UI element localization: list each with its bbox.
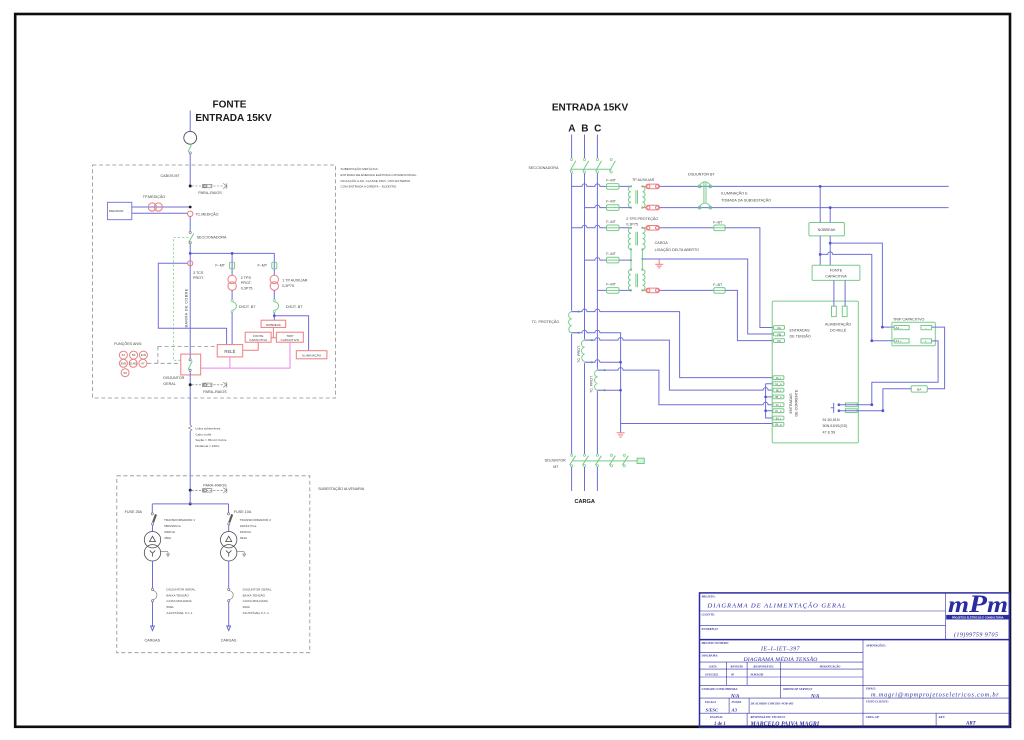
fonte capacitiva box direita — [812, 265, 860, 280]
rele multifuncao box — [772, 301, 858, 443]
ground TC — [617, 433, 625, 437]
wire ramal2-nobreak — [829, 208, 831, 223]
wire derivacao trafos — [152, 490, 228, 512]
svg-text:59: 59 — [123, 371, 127, 375]
wire saida — [189, 371, 191, 425]
wire saida menos trip-BA — [927, 327, 944, 389]
wire nobreak-fonte capacitiva 2 — [829, 236, 831, 265]
svg-text:TP AUXILIAR: TP AUXILIAR — [632, 178, 655, 182]
svg-text:2 TPS PROTEÇÃO: 2 TPS PROTEÇÃO — [626, 216, 658, 221]
svg-text:CAIXA MOLDADA: CAIXA MOLDADA — [243, 599, 269, 603]
svg-text:–: – — [925, 326, 927, 330]
wire cargas A B C — [571, 467, 573, 491]
svg-text:3 TCS: 3 TCS — [193, 271, 204, 275]
svg-text:ENTRADAS: ENTRADAS — [790, 329, 811, 333]
wire saida mais trip-contato — [872, 341, 938, 405]
wire IA_o to bus terra — [572, 330, 621, 433]
svg-text:CARGAS: CARGAS — [221, 639, 237, 643]
wire ramal 5 to F-BT — [660, 289, 714, 291]
wire medidor-barra — [132, 206, 190, 208]
wire barra MT — [189, 244, 191, 359]
fusivel secundario 1 — [642, 184, 659, 189]
wire ramal 3 (A - TPs protecao) — [572, 225, 631, 228]
svg-text:TRANSFORMADOR 1: TRANSFORMADOR 1 — [164, 518, 195, 522]
svg-text:BAIXA TENSÃO: BAIXA TENSÃO — [166, 592, 189, 597]
wire ramal 5 (C - TPs protecao) — [597, 289, 631, 291]
wire ramal 3 to F-BT — [660, 227, 714, 229]
svg-text:DISJUNTOR BT: DISJUNTOR BT — [688, 172, 716, 176]
svg-text:AJUSTÁVEL 0,7–1: AJUSTÁVEL 0,7–1 — [166, 611, 192, 615]
svg-text:ILUMINAÇÃO E: ILUMINAÇÃO E — [721, 191, 748, 196]
svg-text:FUSE 10A: FUSE 10A — [234, 510, 252, 514]
svg-text:DE TENSÃO: DE TENSÃO — [790, 334, 811, 339]
chave da fonte — [188, 144, 192, 152]
wire IA_i — [572, 309, 773, 378]
svg-text:BAIXA TENSÃO: BAIXA TENSÃO — [243, 592, 266, 597]
wire t1 — [152, 561, 154, 588]
svg-text:ENDEREÇO:: ENDEREÇO: — [701, 627, 719, 631]
svg-text:BARRA DE COBRE: BARRA DE COBRE — [184, 288, 188, 327]
svg-text:150KVA: 150KVA — [240, 530, 252, 534]
svg-text:DISJUNTOR: DISJUNTOR — [163, 376, 184, 380]
fusivel secundario 5 — [642, 288, 659, 293]
fusivel secundario 3 — [642, 226, 659, 231]
terminal VA — [774, 326, 785, 330]
svg-text:51: 51 — [122, 353, 126, 357]
svg-text:DIAGRAMA DE ALIMENTAÇÃO GER: DIAGRAMA DE ALIMENTAÇÃO GERAL — [707, 601, 847, 609]
svg-text:GERAL: GERAL — [163, 382, 176, 386]
svg-text:mPm: mPm — [948, 591, 1008, 618]
wire fonte entrada — [189, 111, 191, 132]
svg-text:TRIP CAPACITIVO: TRIP CAPACITIVO — [893, 317, 925, 321]
svg-text:51NS: 51NS — [129, 361, 137, 365]
svg-text:50N: 50N — [121, 361, 127, 365]
svg-text:F–MT: F–MT — [258, 264, 268, 268]
svg-text:IN_i: IN_i — [776, 416, 782, 420]
svg-text:DISJT. BT: DISJT. BT — [286, 305, 303, 309]
svg-text:N/A: N/A — [730, 694, 740, 699]
svg-text:0,3P75: 0,3P75 — [241, 286, 253, 290]
transformador T2 — [221, 532, 237, 548]
title block frame — [700, 593, 1010, 727]
wire fase B — [584, 135, 586, 159]
wire IC_i — [597, 368, 773, 405]
terminal alimentacao rele 1 — [832, 306, 837, 316]
TP medicao circles — [148, 203, 156, 211]
para-raios PR1 — [192, 183, 227, 189]
cargas T1 arrow — [152, 602, 154, 627]
battery BA — [911, 386, 927, 392]
terminal IC_i — [773, 403, 784, 407]
transformador T1 — [144, 532, 160, 548]
svg-text:MARCELO PAIVA MAGRI: MARCELO PAIVA MAGRI — [750, 721, 820, 727]
barra de cobre loop wire — [158, 263, 226, 344]
wire BA-contato inferior — [883, 389, 911, 411]
svg-text:EMAIL:: EMAIL: — [865, 687, 876, 691]
terminal VC — [774, 339, 785, 343]
svg-text:0,3P75: 0,3P75 — [282, 284, 294, 288]
svg-text:SECCIONADORA: SECCIONADORA — [197, 236, 227, 240]
wire A2 trip capacitivo — [830, 243, 894, 327]
svg-text:DE CORRENTE: DE CORRENTE — [795, 389, 799, 416]
svg-text:RESPONSÁVEL: RESPONSÁVEL — [753, 664, 774, 668]
svg-text:300KVA: 300KVA — [164, 530, 176, 534]
svg-text:FUNÇÕES ANSI: FUNÇÕES ANSI — [114, 341, 141, 346]
svg-text:50: 50 — [132, 353, 136, 357]
svg-text:PARA–RAIOS: PARA–RAIOS — [203, 483, 227, 487]
wire to rele — [231, 313, 233, 345]
TP auxiliar windings — [628, 186, 645, 207]
wire IB_o — [585, 360, 621, 363]
disjuntor geral box — [181, 354, 201, 375]
svg-text:CAIXA MOLDADA: CAIXA MOLDADA — [166, 599, 192, 603]
wire fase A — [571, 135, 573, 159]
svg-text:1 de 1: 1 de 1 — [714, 722, 726, 727]
wire VA — [725, 228, 773, 328]
svg-text:ILUMINAÇÃO: ILUMINAÇÃO — [302, 352, 322, 357]
svg-text:VISTO CLIENTE:: VISTO CLIENTE: — [866, 700, 889, 704]
svg-text:DISJUNTOR: DISJUNTOR — [545, 458, 566, 462]
svg-text:DE ACORDO COM DIS–NOR–003: DE ACORDO COM DIS–NOR–003 — [750, 701, 794, 705]
wire IC_o — [597, 389, 620, 391]
svg-text:F–BT: F–BT — [713, 220, 723, 224]
svg-text:450A: 450A — [164, 536, 172, 540]
fonte capacitiva box — [245, 332, 271, 342]
TC protecao 3 TCS — [188, 261, 193, 266]
svg-text:IN_o: IN_o — [775, 423, 782, 427]
svg-text:DISJUNTOR GERAL: DISJUNTOR GERAL — [243, 588, 272, 592]
svg-text:m.magri@mpmprojetoseletricos.c: m.magri@mpmprojetoseletricos.com.br — [871, 692, 1000, 699]
svg-text:ART:: ART: — [938, 715, 945, 719]
svg-text:IA_o: IA_o — [775, 382, 782, 386]
svg-text:ENTRADAS: ENTRADAS — [789, 393, 793, 414]
terminal IB_o — [773, 395, 784, 399]
wire IN_o from terra bus — [621, 423, 773, 425]
seccionadora S1 — [189, 231, 191, 233]
svg-text:IC_i: IC_i — [776, 403, 782, 407]
terminal IB_i — [773, 388, 784, 392]
svg-text:PÁGINAS: PÁGINAS — [710, 715, 723, 719]
svg-text:MT: MT — [553, 465, 559, 469]
svg-text:PARA–RAIOS: PARA–RAIOS — [198, 191, 222, 195]
subestacao alvenaria enclosure — [117, 476, 310, 653]
wire ramal1-nobreak — [819, 186, 821, 222]
svg-text:SECCIONADORA: SECCIONADORA — [529, 166, 559, 170]
ANSI function circles — [119, 351, 147, 377]
disjuntor BT 2 — [273, 299, 275, 301]
relay bus entradas corrente — [766, 384, 773, 418]
svg-text:RELÉ: RELÉ — [224, 349, 235, 354]
svg-text:50N,51NS(GS): 50N,51NS(GS) — [823, 424, 848, 428]
svg-text:2 TPS: 2 TPS — [241, 276, 252, 280]
rele box — [217, 345, 243, 357]
svg-text:ART: ART — [965, 722, 977, 727]
svg-text:IC_o: IC_o — [775, 409, 782, 413]
svg-text:REVISÃO: REVISÃO — [731, 664, 744, 668]
subestacao metalica enclosure — [93, 165, 336, 398]
fonte supply circle — [184, 131, 197, 144]
svg-text:FONTE: FONTE — [830, 269, 843, 273]
TP protecao 2 TPS — [228, 275, 236, 283]
svg-text:CLIENTE:: CLIENTE: — [702, 612, 716, 616]
svg-text:TP.MEDIÇÃO: TP.MEDIÇÃO — [143, 194, 166, 199]
svg-text:S/ESC: S/ESC — [706, 707, 719, 712]
wire nobreak-fonte capacitiva 1 — [819, 236, 821, 265]
svg-text:NOBREAK: NOBREAK — [818, 228, 837, 232]
node junction trafos — [189, 502, 192, 505]
svg-text:FUSE 25A: FUSE 25A — [125, 510, 143, 514]
svg-text:VC: VC — [777, 339, 782, 343]
svg-text:PROJETO NÚMERO:: PROJETO NÚMERO: — [702, 641, 729, 645]
wire fase C — [596, 135, 598, 159]
disjuntor BT 1 — [231, 299, 233, 301]
wire entrada subestacao — [189, 154, 191, 186]
svg-text:Distância = 240m: Distância = 240m — [195, 444, 219, 448]
wire nobreak/iluminacao — [273, 313, 275, 321]
TPs protecao delta aberto windings — [628, 228, 645, 291]
svg-text:ESCALA: ESCALA — [704, 700, 716, 704]
svg-text:F–MT: F–MT — [606, 200, 616, 204]
svg-text:DIAGRAMA MÉDIA TENSÃO: DIAGRAMA MÉDIA TENSÃO — [742, 655, 817, 663]
svg-text:IB_i: IB_i — [776, 388, 782, 392]
svg-text:DISJT. BT: DISJT. BT — [239, 305, 256, 309]
svg-text:DATA: DATA — [708, 664, 716, 668]
svg-text:IE–I–IET–397: IE–I–IET–397 — [760, 647, 801, 653]
svg-text:PARA–RAIOS: PARA–RAIOS — [203, 390, 227, 394]
svg-text:UNIDADE CONSUMIDORA:: UNIDADE CONSUMIDORA: — [702, 687, 739, 691]
svg-text:220/127Vca: 220/127Vca — [240, 524, 257, 528]
wire trip magenta — [201, 342, 290, 368]
svg-text:ISOLAÇÃO A AR, CLASSE 15KV, US: ISOLAÇÃO A AR, CLASSE 15KV, USO EXTERNO — [341, 178, 411, 183]
trip capacitivo box — [276, 332, 303, 342]
svg-text:TC. PROTEÇÃO: TC. PROTEÇÃO — [532, 319, 560, 324]
ground secundario TP — [655, 259, 663, 268]
svg-text:N/A: N/A — [810, 694, 820, 699]
svg-text:A1 +: A1 + — [895, 339, 902, 343]
svg-text:0,3P75: 0,3P75 — [626, 222, 638, 226]
svg-text:VB: VB — [777, 332, 781, 336]
svg-text:M.MAGRI: M.MAGRI — [750, 672, 765, 676]
svg-text:(19)99759 9705: (19)99759 9705 — [954, 632, 998, 639]
terminal IC_o — [773, 409, 784, 413]
terminal IN_o — [773, 423, 784, 427]
wire secundario centro (VB) — [642, 259, 773, 334]
svg-text:FOLHA: FOLHA — [732, 700, 742, 704]
svg-text:A2 –: A2 – — [895, 326, 902, 330]
svg-text:CREA–SP:: CREA–SP: — [866, 715, 880, 719]
svg-text:+: + — [925, 339, 927, 343]
wire nobreak red — [271, 327, 276, 337]
svg-text:F–MT: F–MT — [606, 179, 616, 183]
node junction barra — [189, 252, 192, 255]
svg-text:MODIFICAÇÃO: MODIFICAÇÃO — [819, 664, 841, 668]
svg-text:F–BT: F–BT — [713, 283, 723, 287]
svg-text:AJUSTÁVEL 0,7–1: AJUSTÁVEL 0,7–1 — [243, 611, 269, 615]
contato de trip do rele — [831, 403, 834, 413]
nobreak box direita — [809, 223, 845, 236]
svg-text:380/220Vca: 380/220Vca — [164, 524, 181, 528]
mufla — [189, 425, 192, 431]
svg-text:10/03/2022: 10/03/2022 — [705, 672, 719, 676]
wire contato trip superior — [839, 404, 872, 406]
wire fase B baixo — [584, 173, 586, 454]
medidor M1 — [107, 202, 131, 219]
disjuntor geral BT t2 — [228, 588, 230, 590]
svg-text:B: B — [581, 124, 588, 135]
svg-text:Cabo mufla: Cabo mufla — [195, 432, 211, 436]
svg-text:47: 47 — [141, 361, 145, 365]
svg-text:47 E 59: 47 E 59 — [823, 430, 836, 434]
svg-text:CAPACITIVO: CAPACITIVO — [281, 338, 300, 342]
cargas T2 arrow — [228, 602, 230, 627]
svg-text:APROVAÇÕES:: APROVAÇÕES: — [865, 643, 886, 647]
node junction medicao — [189, 206, 192, 209]
svg-text:TC. PROT.: TC. PROT. — [589, 375, 593, 393]
svg-text:SUBESTAÇÃO METÁLICA:: SUBESTAÇÃO METÁLICA: — [341, 166, 379, 171]
svg-text:DISJUNTOR GERAL: DISJUNTOR GERAL — [166, 588, 195, 592]
wire derivacao TPs — [190, 253, 274, 275]
wire fase A baixo — [571, 173, 573, 454]
terminal VB — [774, 332, 785, 336]
wire ramal 2 — [660, 207, 949, 209]
wire VC — [725, 290, 773, 340]
svg-text:F–MT: F–MT — [606, 220, 616, 224]
svg-text:400A: 400A — [243, 605, 251, 609]
TC medicao — [188, 211, 193, 216]
svg-text:ENTRADA 15KV: ENTRADA 15KV — [195, 113, 272, 124]
wire A1 trip capacitivo — [820, 252, 894, 341]
iluminacao box — [296, 351, 327, 359]
svg-text:CARGAS: CARGAS — [145, 639, 161, 643]
svg-text:ENTRADA DE ENERGIA ELÉTRICA CO: ENTRADA DE ENERGIA ELÉTRICA CONVENCIONAL… — [341, 172, 418, 177]
wire contato trip inferior — [839, 410, 883, 412]
wire linha subterranea — [189, 431, 191, 490]
svg-text:IB_o: IB_o — [775, 395, 782, 399]
svg-text:1 TP AUXILIAR: 1 TP AUXILIAR — [282, 279, 308, 283]
svg-text:TC. PROT.: TC. PROT. — [577, 345, 581, 363]
svg-text:F–MT: F–MT — [606, 252, 616, 256]
wire ramal 2 (B - TP auxiliar) — [585, 205, 632, 208]
svg-text:A3: A3 — [731, 707, 738, 712]
wire ramal 1 (A - TP auxiliar) — [572, 184, 631, 187]
svg-text:A: A — [568, 124, 575, 135]
svg-text:RESPONSÁVEL TÉCNICO:: RESPONSÁVEL TÉCNICO: — [751, 715, 786, 719]
svg-text:DO RELÉ: DO RELÉ — [830, 327, 847, 332]
svg-text:CABOS MT: CABOS MT — [161, 174, 181, 178]
TP auxiliar 1 TP — [270, 275, 278, 283]
terminal IA_i — [773, 376, 784, 380]
svg-text:F–MT: F–MT — [215, 264, 225, 268]
disjuntor geral BT t1 — [151, 588, 153, 590]
svg-text:F–MT: F–MT — [606, 283, 616, 287]
terminal IN_i — [773, 416, 784, 420]
wire IB_i — [585, 338, 773, 390]
wire fonte capacitiva-alimentacao — [833, 280, 835, 306]
para-raios PR2 — [192, 382, 227, 388]
wire — [231, 290, 233, 299]
wire t2 — [228, 561, 230, 588]
terminal IA_o — [773, 382, 784, 386]
wire rele-fonte capacitiva — [243, 342, 259, 350]
svg-text:51,50,51N: 51,50,51N — [823, 418, 840, 422]
svg-text:TOMADA DA SUBSESTAÇÃO: TOMADA DA SUBSESTAÇÃO — [721, 198, 771, 203]
svg-text:FONTE: FONTE — [213, 100, 247, 111]
svg-text:PROJETO:: PROJETO: — [702, 595, 716, 599]
svg-text:C: C — [594, 124, 601, 135]
svg-text:MEDIDOR: MEDIDOR — [109, 209, 124, 213]
svg-text:ALIMENTAÇÃO: ALIMENTAÇÃO — [825, 322, 851, 327]
svg-text:IA_i: IA_i — [776, 376, 782, 380]
svg-text:Seção = 35mm² Cobre: Seção = 35mm² Cobre — [195, 438, 226, 442]
wire barra — [189, 217, 191, 232]
fusivel secundario 2 — [642, 205, 659, 210]
dashed link ANSI-rele — [147, 346, 217, 363]
svg-text:CAPACITIVA: CAPACITIVA — [825, 275, 847, 279]
svg-text:DIAGRAMA:: DIAGRAMA: — [701, 654, 719, 658]
svg-text:394A: 394A — [240, 536, 248, 540]
svg-text:TC.MEDIÇÃO: TC.MEDIÇÃO — [195, 211, 218, 216]
svg-text:500A: 500A — [166, 605, 174, 609]
node junction para-raios 1 — [189, 185, 192, 188]
svg-text:CARGA: CARGA — [574, 499, 595, 505]
interlock dashed seccionadora-disjuntor — [173, 238, 188, 361]
svg-text:CAPACITIVA: CAPACITIVA — [249, 338, 268, 342]
svg-text:TRANSFORMADOR 2: TRANSFORMADOR 2 — [240, 518, 271, 522]
svg-text:PROT.: PROT. — [193, 276, 204, 280]
svg-text:LIGAÇÃO DELTA ABERTO: LIGAÇÃO DELTA ABERTO — [655, 247, 700, 252]
svg-text:ENTRADA 15KV: ENTRADA 15KV — [552, 103, 629, 114]
svg-text:Linha subterrânea: Linha subterrânea — [195, 426, 220, 430]
svg-text:NOBREAK: NOBREAK — [266, 323, 282, 327]
wire ramal 1 to disjuntor BT — [660, 185, 949, 187]
svg-text:E/N: E/N — [141, 353, 146, 357]
node junction para-raios 2 — [189, 383, 192, 386]
wire — [273, 290, 275, 299]
svg-text:CARGA: CARGA — [655, 241, 669, 245]
svg-text:PROT.: PROT. — [241, 281, 252, 285]
terminal alimentacao rele 2 — [842, 306, 847, 316]
wire ramal 4 (B - centro delta) — [585, 258, 632, 261]
svg-text:ORDEM DE SERVIÇO:: ORDEM DE SERVIÇO: — [783, 687, 813, 691]
wire fase C baixo — [596, 173, 598, 454]
nobreak box — [261, 320, 286, 327]
svg-text:COM ENTRADA A DIREITA – ELEKTR: COM ENTRADA A DIREITA – ELEKTRO — [341, 184, 397, 188]
svg-text:SUBESTAÇÃO ALVENARIA: SUBESTAÇÃO ALVENARIA — [318, 486, 365, 491]
